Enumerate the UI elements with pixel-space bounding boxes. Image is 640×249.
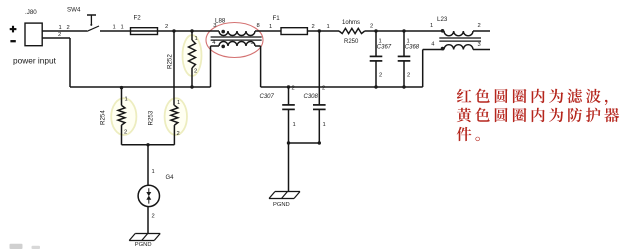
svg-text:G4: G4	[166, 175, 175, 181]
svg-text:1: 1	[113, 24, 116, 30]
svg-text:1: 1	[59, 25, 62, 31]
svg-text:2: 2	[58, 32, 61, 38]
svg-text:1: 1	[152, 169, 155, 175]
svg-text:F2: F2	[134, 15, 142, 22]
svg-text:1: 1	[177, 100, 180, 106]
svg-text:F1: F1	[273, 15, 281, 22]
svg-text:power input: power input	[13, 56, 57, 66]
svg-text:2: 2	[165, 24, 168, 30]
svg-text:1: 1	[125, 97, 128, 103]
svg-text:2: 2	[322, 86, 325, 92]
svg-text:L23: L23	[437, 16, 448, 23]
svg-text:2: 2	[177, 131, 180, 137]
svg-text:2: 2	[379, 73, 382, 79]
svg-text:2: 2	[312, 24, 315, 30]
svg-text:2: 2	[124, 130, 127, 136]
svg-text:2: 2	[292, 86, 295, 92]
svg-text:1: 1	[269, 24, 272, 30]
svg-text:C367: C367	[377, 45, 392, 51]
svg-text:2: 2	[194, 69, 197, 75]
svg-text:1: 1	[121, 24, 124, 30]
svg-text:R250: R250	[344, 39, 359, 45]
svg-text:C308: C308	[304, 94, 319, 100]
svg-text:1: 1	[430, 23, 433, 29]
svg-text:1: 1	[195, 36, 198, 42]
svg-text:C307: C307	[260, 94, 275, 100]
svg-text:8: 8	[257, 23, 260, 29]
svg-text:.J80: .J80	[25, 9, 37, 16]
svg-text:SW4: SW4	[67, 7, 81, 14]
svg-text:C368: C368	[405, 45, 420, 51]
svg-text:2: 2	[67, 25, 70, 31]
svg-text:R253: R253	[148, 110, 155, 125]
svg-text:2: 2	[407, 73, 410, 79]
svg-text:1: 1	[327, 24, 330, 30]
svg-text:2: 2	[478, 23, 481, 29]
svg-text:R254: R254	[100, 110, 107, 125]
svg-text:5: 5	[251, 40, 254, 46]
svg-text:R252: R252	[167, 54, 174, 69]
svg-text:3: 3	[213, 23, 216, 29]
svg-text:1: 1	[293, 122, 296, 128]
svg-text:4: 4	[431, 42, 435, 48]
svg-text:PGND: PGND	[135, 242, 152, 248]
svg-text:1ohms: 1ohms	[342, 20, 360, 26]
svg-text:PGND: PGND	[273, 202, 290, 208]
svg-text:2: 2	[370, 24, 373, 30]
svg-text:3: 3	[478, 42, 481, 48]
svg-text:L88: L88	[215, 18, 226, 25]
svg-text:2: 2	[152, 214, 155, 220]
svg-text:1: 1	[323, 122, 326, 128]
